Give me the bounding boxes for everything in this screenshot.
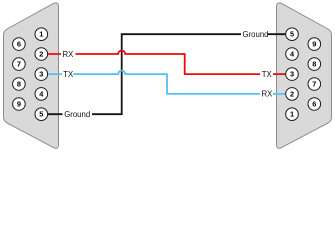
svg-text:5: 5 <box>290 30 294 39</box>
svg-text:8: 8 <box>312 60 316 69</box>
svg-text:5: 5 <box>39 110 43 119</box>
svg-text:1: 1 <box>39 30 43 39</box>
svg-text:7: 7 <box>312 80 316 89</box>
svg-text:3: 3 <box>290 70 294 79</box>
svg-text:6: 6 <box>17 40 21 49</box>
svg-text:9: 9 <box>312 40 316 49</box>
svg-text:TX: TX <box>63 70 74 79</box>
svg-text:RX: RX <box>63 50 75 59</box>
svg-text:1: 1 <box>290 110 294 119</box>
svg-text:7: 7 <box>17 60 21 69</box>
svg-text:Ground: Ground <box>243 30 269 39</box>
svg-text:9: 9 <box>17 100 21 109</box>
svg-text:TX: TX <box>262 70 273 79</box>
svg-text:RX: RX <box>262 90 274 99</box>
svg-text:8: 8 <box>17 80 21 89</box>
svg-text:3: 3 <box>39 70 43 79</box>
svg-text:Ground: Ground <box>64 110 90 119</box>
svg-text:6: 6 <box>312 100 316 109</box>
svg-text:2: 2 <box>39 50 43 59</box>
svg-text:2: 2 <box>290 89 294 98</box>
